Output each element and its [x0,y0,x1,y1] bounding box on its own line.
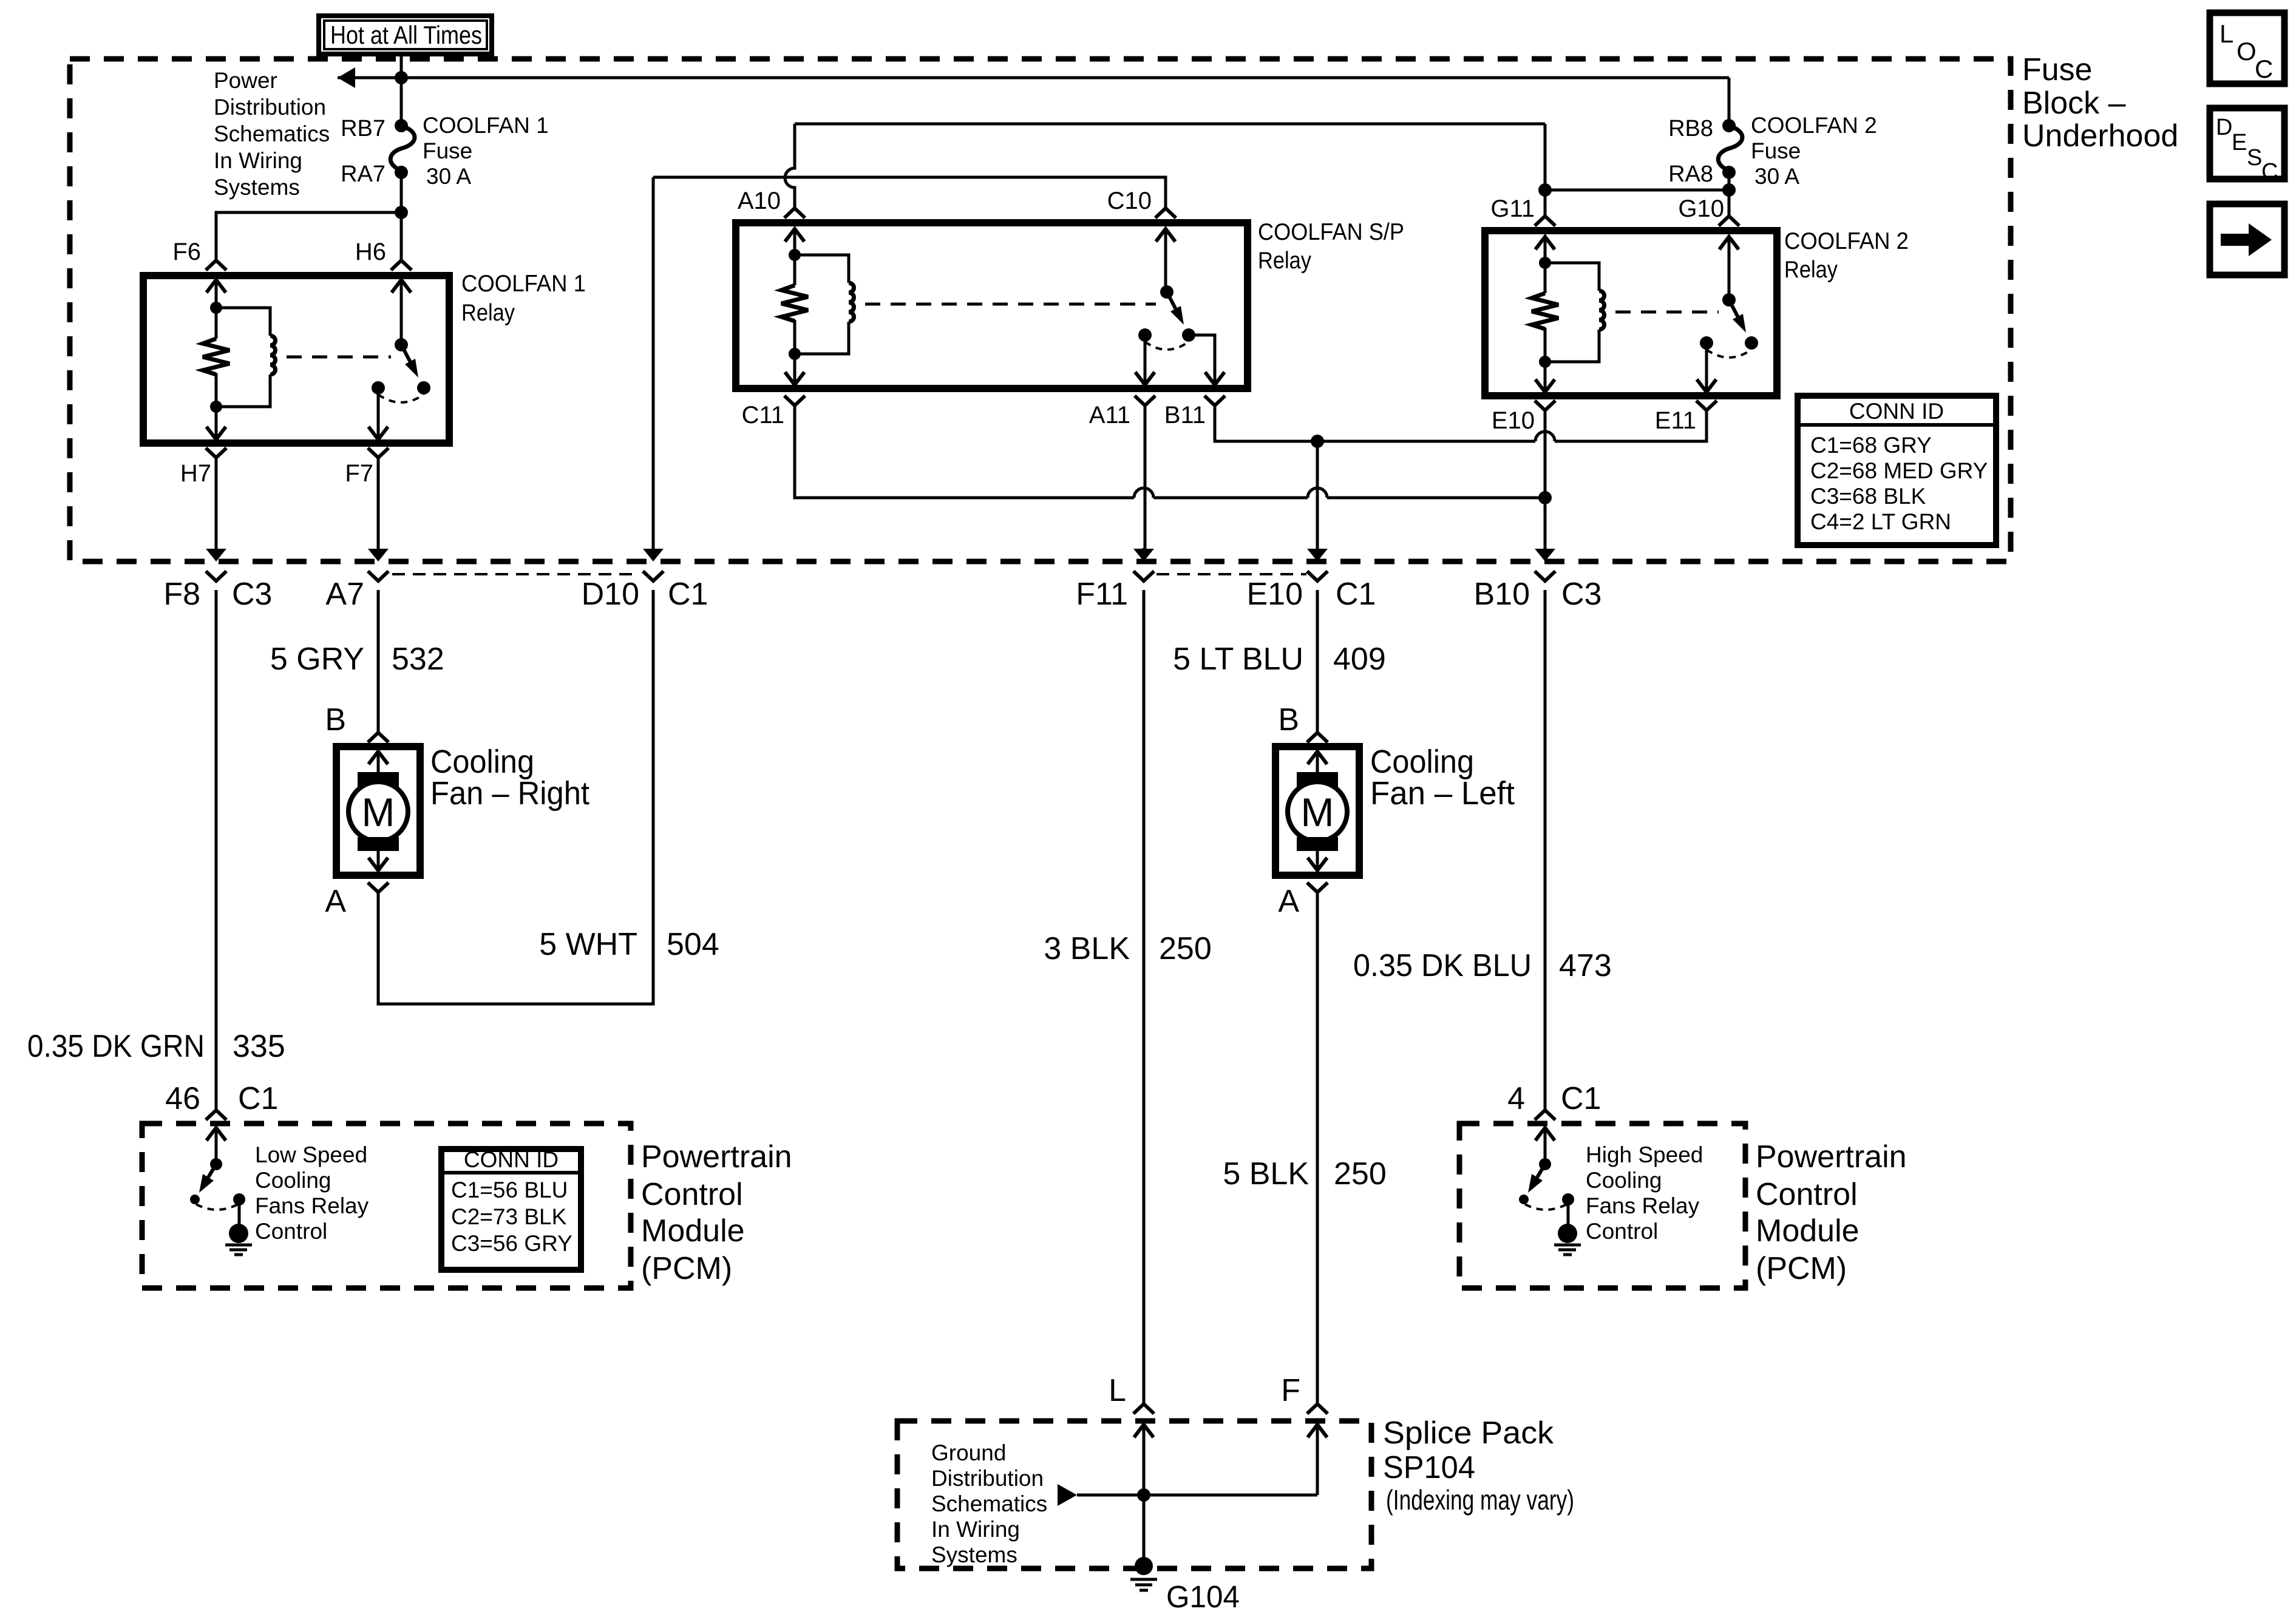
hop over E10 drop [1535,432,1555,441]
wire 250 F11 to splice L [1143,590,1146,1404]
svg-text:C: C [2261,159,2278,185]
wire 473 B10 to PCM [1544,590,1547,1110]
exit arrow at x=356 [215,548,218,549]
svg-text:(PCM): (PCM) [1756,1251,1847,1286]
pin B11 arrow out of relay [1205,372,1224,385]
relay K2 switch throw arc [1145,342,1189,350]
wire 532 F7 to fan right B [377,590,380,733]
pin E11 arrow out of relay [1697,379,1716,392]
connector fork F6 [206,260,226,270]
PCM high speed switch left contact [1519,1195,1529,1204]
PCM high speed driver arrow [1535,1128,1555,1141]
pin RB8 terminal dot [1722,119,1736,132]
svg-text:G10: G10 [1678,195,1724,222]
relay K1 COOLFAN 1 Relay box [143,276,449,443]
module U2 Powertrain Control Module dashed box right [1459,1124,1745,1288]
svg-text:Fans Relay: Fans Relay [1586,1193,1700,1218]
ground symbol G104 [1130,1578,1157,1581]
svg-text:Fuse: Fuse [1751,138,1801,163]
svg-text:C: C [2255,55,2273,83]
pin RA8 terminal dot [1722,166,1736,179]
pin F6 arrow into relay [206,280,226,293]
svg-text:In Wiring: In Wiring [931,1517,1020,1542]
connector fork below fuse block x=623 [368,571,389,581]
relay K3 switch blade [1729,300,1737,317]
svg-text:COOLFAN S/P: COOLFAN S/P [1258,219,1404,245]
wire down to relay K3 pin G11 fork [1544,124,1547,216]
svg-text:Schematics: Schematics [931,1491,1047,1516]
svg-text:E10: E10 [1492,407,1535,434]
fuse block underhood dashed border [70,59,2011,561]
wire into high speed switch [1544,1140,1547,1164]
svg-text:Control: Control [641,1177,743,1212]
svg-text:C1: C1 [668,577,708,612]
connector fork A10 [784,208,805,218]
splice L entry arrow [1134,1425,1153,1437]
svg-text:In Wiring: In Wiring [214,148,302,173]
table CONN ID fuse block [1798,396,1996,545]
svg-text:Module: Module [1756,1213,1860,1249]
wire coil to pin H7 [215,407,218,439]
svg-text:S: S [2247,145,2262,171]
svg-text:C1=56 BLU: C1=56 BLU [451,1178,568,1202]
relay K1 switch blade [401,345,410,362]
relay K1 switch moving contact [417,381,430,395]
connector fork H6 [391,260,412,270]
svg-text:F7: F7 [345,460,373,487]
ground symbol high speed [1554,1244,1581,1247]
exit arrow at x=2170 [1316,548,1319,549]
relay K2 switch blade [1167,292,1175,309]
wire D10 riser [652,177,655,549]
svg-text:(Indexing may vary): (Indexing may vary) [1386,1484,1574,1516]
ground terminal low speed [229,1224,248,1243]
pin A11 arrow out of relay [1135,372,1155,385]
relay K3 coil branch node top [1539,257,1551,269]
relay K3 coil branch node bottom [1539,356,1551,368]
svg-text:Splice Pack: Splice Pack [1383,1415,1554,1451]
wire 504 fan right A to D10 [378,590,653,1004]
pin H6 arrow into relay [392,280,411,293]
svg-text:G104: G104 [1166,1579,1240,1614]
svg-text:(PCM): (PCM) [641,1251,732,1286]
pin F7 arrow out of relay [369,427,388,439]
wire RA8 down to branch node [1728,172,1731,190]
svg-text:C2=73 BLK: C2=73 BLK [451,1204,567,1229]
connector fork G11 [1535,216,1555,226]
svg-text:B: B [1278,702,1299,737]
svg-text:5 BLK: 5 BLK [1223,1156,1309,1192]
ground G104 terminal [1135,1557,1153,1575]
PCM high speed switch pivot [1539,1158,1551,1170]
wire to ground low speed [238,1199,241,1225]
svg-text:C1: C1 [1336,577,1376,612]
relay K2 coil [795,255,849,283]
svg-text:Distribution: Distribution [214,95,326,120]
legend box LOC [2210,13,2284,84]
svg-text:M: M [1301,790,1334,835]
PCM high speed switch blade [1537,1164,1545,1178]
connector fork E10 [1535,401,1555,410]
relay K1 switch throw arc [378,395,424,402]
wire A11 down to F11 exit [1144,405,1147,549]
svg-text:Systems: Systems [214,175,300,200]
arrow to power distribution schematics [338,67,355,88]
svg-text:RB7: RB7 [341,116,385,141]
PCM low speed driver arrow [206,1128,226,1141]
exit arrow at x=2545 [1544,548,1547,549]
svg-text:504: 504 [667,927,719,962]
node junction at E10 drop [1538,491,1552,504]
relay K1 switch common from H6 [400,309,403,345]
svg-text:C2=68 MED GRY: C2=68 MED GRY [1810,458,1988,483]
node G11 tap [1538,183,1552,197]
svg-text:Schematics: Schematics [214,121,330,146]
svg-text:Powertrain: Powertrain [1756,1139,1907,1175]
svg-text:Control: Control [1586,1219,1658,1244]
svg-text:Cooling: Cooling [430,744,534,780]
motor M2 armature circle [1288,782,1347,841]
svg-text:30 A: 30 A [1754,164,1799,189]
wire coil to pin C11 [793,354,796,385]
svg-text:B: B [325,702,346,737]
svg-text:O: O [2237,37,2257,66]
connector fork B11 [1204,396,1225,405]
wire ground stub [1143,1495,1146,1566]
hop over fan feed drop [1308,488,1327,498]
connector fork F7 [368,448,389,458]
pin H7 arrow out of relay [206,427,226,439]
connector fork below fuse block x=2170 [1307,571,1328,581]
svg-text:0.35 DK BLU: 0.35 DK BLU [1353,948,1532,983]
wire bus down to fuse F2 [1728,78,1731,126]
svg-text:RA8: RA8 [1668,161,1713,187]
svg-text:335: 335 [233,1029,285,1064]
wire down to relay K3 pin G10 [1728,190,1731,216]
relay K2 coil branch node bottom [789,348,801,360]
wire stationary contact to pin E11 [1705,343,1708,392]
splice F entry arrow [1308,1425,1327,1437]
wire coil to pin E10 [1544,362,1547,392]
connector fork fan left A [1307,883,1328,892]
connector fork splice F [1307,1404,1328,1414]
svg-text:5 WHT: 5 WHT [539,927,637,962]
svg-text:C4=2 LT GRN: C4=2 LT GRN [1810,509,1951,534]
connector fork below fuse block x=356 [206,571,226,581]
svg-text:Underhood: Underhood [2022,118,2178,154]
connector fork fan right B [368,733,389,742]
svg-text:250: 250 [1159,931,1212,966]
svg-text:M: M [362,790,395,835]
relay K1 coil [216,308,270,336]
module U1 Powertrain Control Module dashed box [142,1124,631,1288]
wire moving contact to pin B11 [1189,335,1215,385]
PCM high speed switch throw arc [1525,1204,1567,1210]
pin G10 arrow into relay [1719,237,1739,249]
svg-text:F8: F8 [163,577,200,612]
PCM low speed switch throw arc [196,1204,238,1210]
connector fork fan left B [1307,733,1328,742]
motor M2 bottom brush [1297,837,1338,851]
relay K1 switch stationary contact [372,381,385,395]
svg-text:Fuse: Fuse [2022,52,2093,87]
svg-text:B11: B11 [1164,402,1206,429]
wire top run from A10 to G11 [795,123,1545,126]
table CONN ID PCM left [441,1149,581,1270]
svg-text:532: 532 [392,642,444,677]
PCM low speed switch left contact [190,1195,200,1204]
motor M1 return arrow [369,858,388,870]
relay K1 coil branch node top [210,302,222,314]
wire from Hot at All Times down to bus [400,54,403,126]
svg-text:Distribution: Distribution [931,1466,1044,1491]
wire to relay K1 pin H6 [400,212,403,260]
svg-text:Control: Control [1756,1177,1858,1212]
connector fork C10 [1155,208,1176,218]
svg-text:L: L [1109,1373,1126,1408]
svg-text:C1: C1 [1561,1081,1601,1116]
motor M2 feed arrow [1308,751,1327,764]
svg-text:Power: Power [214,68,277,93]
wire H7 down to F8 exit [215,458,218,549]
svg-text:D10: D10 [582,577,639,612]
hop over A11 drop [1134,488,1153,498]
relay K2 resistor [793,255,796,285]
svg-text:RA7: RA7 [341,161,385,187]
wire E10 down to B10 exit [1544,410,1547,549]
wire splice L to ground [1143,1425,1146,1495]
relay K2 switch moving contact [1182,328,1195,342]
wire branch to relay K1 pin F6 [216,212,401,260]
motor M1 bottom brush [358,837,399,851]
relay K2 coil branch node top [789,249,801,261]
connector C1 dashed link F11-E10 [1156,573,1306,575]
svg-text:SP104: SP104 [1383,1450,1475,1485]
relay K3 switch moving contact [1745,336,1758,350]
connector fork below fuse block x=2545 [1535,571,1555,581]
node branch to G11 [1722,183,1736,197]
relay K3 resistor [1544,263,1547,293]
svg-text:D: D [2216,115,2232,140]
svg-text:C11: C11 [742,402,784,429]
connector fork PCM 4 [1535,1110,1555,1120]
fuse F1 COOLFAN 1 Fuse 30 A [390,126,415,171]
connector fork splice L [1133,1404,1154,1414]
exit arrow at x=1884 [1143,548,1146,549]
PCM low speed switch right contact [233,1193,245,1205]
svg-text:E: E [2232,130,2247,155]
fuse F2 COOLFAN 2 Fuse 30 A [1718,126,1742,171]
connector fork H7 [206,448,226,458]
svg-text:4: 4 [1507,1081,1525,1116]
motor M1 armature circle [348,782,408,841]
relay K2 switch pivot [1160,285,1173,299]
svg-text:Hot at All Times: Hot at All Times [330,21,482,49]
pin G11 arrow into relay [1535,237,1555,249]
svg-text:COOLFAN 2: COOLFAN 2 [1751,113,1877,138]
svg-text:Block –: Block – [2022,86,2126,121]
svg-text:Low Speed: Low Speed [255,1142,367,1167]
svg-text:46: 46 [165,1081,200,1116]
svg-text:A11: A11 [1089,402,1130,429]
svg-text:C3: C3 [1561,577,1601,612]
svg-text:H7: H7 [180,460,211,487]
relay K3 coil-switch link dashed [1615,311,1719,314]
svg-text:409: 409 [1333,642,1386,677]
node branch to F6 [395,206,408,219]
svg-text:0.35 DK GRN: 0.35 DK GRN [27,1029,205,1064]
relay K1 coil-switch link dashed [287,356,391,359]
svg-text:C1: C1 [238,1081,278,1116]
svg-text:B10: B10 [1473,577,1530,612]
motor M2 Cooling Fan Left box [1275,747,1359,875]
svg-text:Fan – Right: Fan – Right [430,775,589,812]
pin C11 arrow out of relay [785,372,804,385]
svg-text:COOLFAN 2: COOLFAN 2 [1784,228,1909,254]
node splice junction [1137,1488,1150,1502]
exit arrow at x=1076 [652,548,655,549]
relay K3 switch pivot [1722,293,1736,307]
pin RB7 terminal dot [395,119,408,132]
svg-text:G11: G11 [1490,195,1535,222]
svg-text:Cooling: Cooling [1370,744,1474,780]
pin C10 arrow into relay [1156,229,1175,242]
motor M2 return arrow [1308,858,1327,870]
relay K1 coil branch node bottom [210,401,222,413]
wire crossover run D10 to C10 [653,177,1166,208]
connector fork PCM 46 [206,1110,226,1120]
svg-text:Relay: Relay [461,300,515,326]
svg-text:F: F [1281,1373,1300,1408]
svg-text:E10: E10 [1246,577,1303,612]
wire to ground high speed [1567,1199,1570,1225]
svg-text:COOLFAN 1: COOLFAN 1 [423,113,549,138]
exit arrow at x=623 [377,548,380,549]
wire tap down to F11 exit [1316,441,1319,549]
svg-text:Fuse: Fuse [423,138,472,163]
splice pack SP104 dashed box [897,1421,1371,1568]
pin RA7 terminal dot [395,166,408,179]
svg-text:A10: A10 [738,188,781,214]
svg-text:473: 473 [1559,948,1612,983]
motor M1 Cooling Fan Right box [336,747,420,875]
svg-text:CONN ID: CONN ID [1849,399,1944,424]
wire F7 down to A7 exit [377,458,380,549]
svg-text:C1=68 GRY: C1=68 GRY [1810,433,1932,458]
wire stationary contact to pin F7 [377,388,380,439]
relay K2 switch stationary contact [1138,328,1152,342]
connector fork G10 [1719,216,1739,226]
ground terminal high speed [1558,1224,1577,1243]
svg-text:30 A: 30 A [426,164,471,189]
wire branch across to relay K3 pin G11 [1545,189,1729,192]
svg-text:Control: Control [255,1219,327,1244]
svg-text:RB8: RB8 [1668,116,1713,141]
svg-text:F11: F11 [1076,577,1128,612]
wire 409 to fan left B [1316,590,1319,733]
connector fork E11 [1696,401,1717,410]
connector fork C11 [784,396,805,405]
wire 335 F8 to PCM [215,590,218,1110]
legend box forward arrow [2210,204,2284,275]
svg-text:Systems: Systems [931,1542,1017,1567]
PCM low speed switch pivot [210,1158,222,1170]
connector fork A11 [1135,396,1155,405]
relay K3 switch throw arc [1707,350,1751,358]
svg-text:3 BLK: 3 BLK [1044,931,1130,966]
bus wire to power distribution arrow [338,76,1729,80]
svg-text:L: L [2220,19,2233,48]
svg-text:C3=68 BLK: C3=68 BLK [1810,484,1926,509]
svg-text:CONN ID: CONN ID [464,1147,559,1172]
relay K1 switch pivot [395,338,408,351]
wire C11 run to E10 drop [795,405,1545,498]
svg-text:Relay: Relay [1784,257,1838,283]
pin E10 arrow out of relay [1535,379,1555,392]
svg-text:Ground: Ground [931,1440,1006,1465]
relay K3 coil [1545,263,1599,291]
svg-text:E11: E11 [1655,407,1696,434]
svg-text:5 LT BLU: 5 LT BLU [1173,642,1303,677]
svg-text:H6: H6 [355,239,386,265]
relay K1 resistor [215,308,218,339]
relay K2 COOLFAN S/P Relay box [736,223,1248,388]
wire B11 run to E11 [1215,405,1707,441]
relay K3 COOLFAN 2 Relay box [1485,231,1777,396]
svg-text:F6: F6 [172,239,201,265]
power feed box Hot at All Times [319,16,492,54]
svg-text:A: A [325,884,346,919]
svg-text:A: A [1278,884,1299,919]
PCM low speed switch blade [208,1164,216,1178]
wire splice bus [1077,1425,1317,1495]
node junction at B+ bus [395,71,408,84]
relay K2 coil-switch link dashed [865,303,1156,306]
svg-text:Module: Module [641,1213,745,1249]
PCM high speed switch right contact [1562,1193,1574,1205]
wire A10 riser with hop over crossover [785,124,795,208]
wire 250 fan left A to splice F [1316,892,1319,1404]
svg-text:Cooling: Cooling [1586,1168,1662,1193]
relay K3 switch stationary contact [1700,336,1713,350]
svg-text:COOLFAN 1: COOLFAN 1 [461,271,586,297]
wire stationary contact to pin A11 [1144,335,1147,385]
svg-text:High Speed: High Speed [1586,1142,1703,1167]
connector fork below fuse block x=1884 [1133,571,1154,581]
connector fork below fuse block x=1076 [643,571,664,581]
ground symbol low speed [225,1244,252,1247]
wire RA7 down to branch node [400,172,403,212]
svg-text:C10: C10 [1107,188,1152,214]
svg-text:C3: C3 [232,577,272,612]
node tap to fan left feed [1311,435,1324,448]
svg-text:Powertrain: Powertrain [641,1139,792,1175]
svg-text:Fan – Left: Fan – Left [1370,775,1515,812]
svg-text:Cooling: Cooling [255,1168,331,1193]
legend box DESC [2210,108,2284,179]
wire into low speed switch [215,1140,218,1164]
motor M2 top brush [1297,772,1338,787]
motor M1 top brush [358,772,399,787]
svg-text:Relay: Relay [1258,248,1311,274]
svg-text:C3=56 GRY: C3=56 GRY [451,1231,572,1256]
pin A10 arrow into relay [785,229,804,242]
motor M1 feed arrow [369,751,388,764]
connector C1 dashed link A7-D10 [392,573,639,575]
svg-text:Fans Relay: Fans Relay [255,1193,369,1218]
svg-text:250: 250 [1334,1156,1387,1192]
connector fork fan right A [368,883,389,892]
